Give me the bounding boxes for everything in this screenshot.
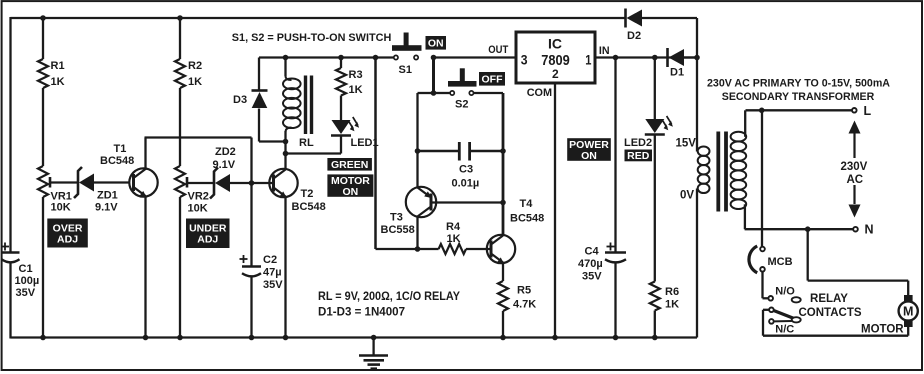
node C4 top: [613, 55, 619, 61]
capacitor C3: [418, 150, 459, 153]
svg-text:D3: D3: [233, 94, 247, 106]
svg-text:ADJ: ADJ: [197, 234, 218, 246]
op-amp IC1 7809 box: [516, 32, 595, 83]
svg-text:D1: D1: [670, 67, 684, 79]
node C4 ground: [613, 335, 619, 341]
node VR1 ground: [40, 335, 46, 341]
svg-text:ON: ON: [581, 150, 597, 162]
svg-text:0V: 0V: [680, 190, 694, 202]
wire C3 to T3: [416, 151, 418, 187]
switch S1: [394, 55, 398, 59]
svg-text:9.1V: 9.1V: [95, 202, 118, 214]
svg-text:N/C: N/C: [775, 324, 794, 336]
resistor R6: [650, 282, 660, 311]
svg-text:R6: R6: [665, 286, 679, 298]
node T3 base junction: [500, 200, 506, 206]
node L MCB junction: [759, 108, 765, 114]
svg-text:15V: 15V: [676, 138, 697, 150]
capacitor C1: [2, 251, 20, 254]
wire R1 branch: [42, 18, 44, 59]
motor M: [904, 295, 913, 302]
svg-text:0.01µ: 0.01µ: [452, 178, 480, 190]
svg-text:L: L: [864, 104, 872, 118]
svg-text:LED2: LED2: [624, 137, 652, 149]
label OFF: [479, 72, 505, 86]
arrow 230V AC: [849, 121, 861, 134]
node S1 rail junction: [373, 55, 379, 61]
svg-text:35V: 35V: [263, 279, 283, 291]
svg-text:BC548: BC548: [100, 155, 134, 167]
wire ZD1 to T1 base: [94, 181, 130, 183]
node R1 top: [40, 15, 46, 21]
node R5 ground: [500, 335, 506, 341]
wire 9V switched rail: [259, 56, 394, 58]
node R4 junction: [415, 246, 421, 252]
node C2 ground: [249, 335, 255, 341]
svg-text:47µ: 47µ: [263, 267, 282, 279]
node RL bottom D3 junction: [283, 139, 289, 145]
node LED1 junction: [283, 151, 289, 157]
svg-text:RL = 9V, 200Ω, 1C/O RELAY: RL = 9V, 200Ω, 1C/O RELAY: [318, 291, 460, 303]
svg-text:RL: RL: [299, 137, 314, 149]
wire LED1 to junction: [340, 136, 342, 154]
svg-text:2: 2: [552, 67, 559, 81]
svg-text:3: 3: [521, 52, 528, 68]
wire IN: [595, 56, 697, 58]
transistor T2: [269, 169, 297, 197]
svg-text:C4: C4: [585, 246, 600, 258]
wire C4 branch: [614, 58, 616, 253]
diode D1: [666, 48, 669, 67]
wire S1 rail to R4 node: [374, 58, 377, 250]
node LED2 top: [652, 55, 658, 61]
LED LED2: [645, 119, 664, 133]
svg-text:R4: R4: [446, 221, 461, 233]
wire VR1 wiper to ZD1: [50, 181, 78, 183]
svg-text:T4: T4: [520, 198, 534, 210]
svg-text:ZD1: ZD1: [97, 190, 118, 202]
svg-text:1K: 1K: [665, 299, 679, 311]
svg-text:R1: R1: [51, 60, 65, 72]
wire T1 emitter: [144, 196, 146, 338]
wire R5 to ground: [502, 311, 504, 338]
transistor T1: [129, 168, 157, 196]
svg-text:IC: IC: [548, 36, 562, 52]
contact N/C pole: [769, 308, 774, 313]
diode D3: [258, 58, 260, 91]
svg-text:CONTACTS: CONTACTS: [798, 307, 861, 319]
node VR2 ground: [177, 335, 183, 341]
node R6 ground: [652, 335, 658, 341]
svg-text:100µ: 100µ: [15, 275, 40, 287]
svg-text:9.1V: 9.1V: [213, 159, 236, 171]
wire T2 emitter: [284, 197, 286, 338]
wire T3 base: [432, 201, 504, 203]
transistor T3 BC558: [406, 187, 436, 217]
svg-text:D1-D3 = 1N4007: D1-D3 = 1N4007: [318, 306, 405, 318]
svg-text:R5: R5: [517, 285, 531, 297]
transformer primary: [731, 132, 747, 142]
wire N to motor: [807, 229, 809, 280]
svg-text:S2: S2: [455, 99, 468, 111]
wire S1 to S2 row: [432, 58, 435, 94]
wire T4 emitter to R5: [502, 264, 504, 282]
svg-text:230V: 230V: [841, 161, 868, 173]
svg-text:1K: 1K: [349, 84, 363, 96]
wire S2 branch to T4 collector: [502, 151, 505, 236]
wire N line: [744, 204, 746, 229]
svg-text:ADJ: ADJ: [57, 233, 78, 245]
node S1 out junction: [431, 55, 437, 61]
wire T3 collector down: [416, 217, 418, 250]
svg-text:MCB: MCB: [768, 256, 793, 268]
wire OUT: [434, 56, 517, 58]
node COM ground: [552, 335, 558, 341]
svg-text:BC548: BC548: [510, 213, 544, 225]
resistor R3: [340, 58, 342, 69]
contact N/O: [768, 296, 773, 301]
wire ZD2 to T2 base: [230, 182, 274, 184]
svg-text:MOTOR: MOTOR: [861, 324, 904, 336]
resistor R1: [38, 59, 48, 88]
ground symbol: [371, 335, 377, 341]
wire 0V line: [696, 189, 698, 338]
svg-text:RED: RED: [627, 150, 650, 162]
node C3 left: [415, 148, 421, 154]
node T2 emitter ground: [283, 335, 289, 341]
svg-text:C3: C3: [459, 164, 473, 176]
transformer secondary: [698, 146, 710, 155]
svg-text:R3: R3: [349, 69, 363, 81]
svg-text:470µ: 470µ: [578, 258, 603, 270]
resistor R4: [418, 248, 439, 250]
label OVER ADJ: [47, 219, 88, 248]
wire ground rail: [11, 336, 698, 338]
zener ZD2: [210, 168, 218, 199]
wire R6 to ground: [654, 311, 656, 338]
potentiometer VR2: [175, 166, 185, 197]
switch S2: [434, 92, 450, 94]
resistor R5: [498, 281, 508, 311]
node T1 emitter ground: [143, 335, 149, 341]
svg-text:10K: 10K: [51, 202, 71, 214]
svg-text:S1: S1: [399, 64, 412, 76]
terminal L: [852, 108, 857, 113]
svg-text:C1: C1: [19, 263, 33, 275]
svg-text:35V: 35V: [582, 271, 602, 283]
diode D2: [624, 9, 627, 28]
svg-text:R2: R2: [188, 60, 202, 72]
svg-text:N/O: N/O: [775, 286, 795, 298]
wire top rail right corner: [696, 18, 698, 58]
svg-text:35V: 35V: [16, 287, 36, 299]
wire LED2 branch: [654, 58, 656, 120]
wire MCB to NO: [761, 272, 763, 299]
wire RL junction down: [284, 142, 286, 154]
node R3 top: [338, 55, 344, 61]
terminal N: [853, 227, 858, 232]
label GREEN: [327, 158, 372, 171]
wire R2 branch: [179, 18, 181, 59]
svg-text:GREEN: GREEN: [331, 159, 368, 171]
svg-text:1K: 1K: [447, 233, 461, 245]
node R2 top: [177, 15, 183, 21]
wire COM pin2: [554, 83, 556, 338]
svg-text:C2: C2: [263, 254, 277, 266]
label ON: [426, 36, 447, 50]
svg-text:BC558: BC558: [381, 224, 415, 236]
wire S2 right down: [474, 92, 503, 94]
svg-text:D2: D2: [627, 30, 641, 42]
svg-text:M: M: [903, 305, 913, 319]
svg-text:1: 1: [585, 52, 591, 68]
wire pole to motor return: [763, 309, 769, 311]
svg-text:10K: 10K: [188, 203, 208, 215]
svg-text:ON: ON: [343, 186, 359, 198]
svg-text:1K: 1K: [188, 76, 202, 88]
svg-text:VR2: VR2: [188, 191, 209, 203]
svg-text:COM: COM: [527, 87, 552, 99]
svg-text:RELAY: RELAY: [810, 293, 848, 305]
svg-text:IN: IN: [599, 45, 610, 57]
node C3 right: [500, 148, 506, 154]
relay coil RL: [284, 58, 286, 77]
svg-text:N: N: [865, 223, 874, 237]
label UNDER ADJ: [186, 219, 230, 249]
node S2 row junction: [431, 90, 437, 96]
svg-text:4.7K: 4.7K: [513, 299, 536, 311]
breaker MCB: [760, 247, 765, 252]
svg-text:OFF: OFF: [482, 74, 504, 86]
node D1 junction: [694, 55, 700, 61]
wire T1 collector down to C2: [250, 138, 252, 267]
svg-text:230V AC PRIMARY TO 0-15V, 500m: 230V AC PRIMARY TO 0-15V, 500mA: [707, 78, 890, 90]
wire 15V line: [696, 58, 698, 152]
svg-text:T3: T3: [390, 212, 403, 224]
svg-text:AC: AC: [847, 174, 864, 186]
label MOTOR ON: [327, 174, 373, 196]
wire T1 collector: [144, 138, 146, 171]
wire L line: [744, 110, 746, 137]
svg-text:1K: 1K: [51, 76, 65, 88]
potentiometer VR1: [38, 166, 48, 197]
svg-text:T2: T2: [301, 188, 314, 200]
transformer core: [716, 132, 720, 212]
wire left branch: [9, 17, 11, 253]
wire L to MCB: [761, 110, 763, 246]
wire D1 anode: [684, 56, 697, 58]
resistor R2: [175, 59, 185, 88]
wire top supply rail: [11, 17, 626, 19]
node ZD2 T1-collector junction: [249, 180, 255, 186]
svg-text:ON: ON: [428, 38, 444, 50]
svg-text:ZD2: ZD2: [215, 146, 236, 158]
svg-text:SECONDARY TRANSFORMER: SECONDARY TRANSFORMER: [722, 91, 875, 103]
label RED: [625, 150, 653, 162]
svg-text:T1: T1: [114, 143, 127, 155]
label POWER ON: [567, 138, 611, 161]
svg-text:BC548: BC548: [292, 201, 326, 213]
wire C2 to ground: [250, 276, 252, 338]
zener ZD1: [74, 167, 82, 198]
capacitor C4: [605, 251, 626, 254]
svg-text:OUT: OUT: [488, 44, 508, 56]
capacitor C2: [242, 265, 261, 268]
wire VR2 wiper to ZD2: [187, 182, 214, 184]
wire T2 collector: [284, 154, 286, 170]
wire R3 to LED1: [340, 96, 342, 121]
node RL top: [283, 55, 289, 61]
svg-text:S1, S2 = PUSH-TO-ON SWITCH: S1, S2 = PUSH-TO-ON SWITCH: [232, 32, 392, 44]
node N motor junction: [805, 226, 811, 232]
LED LED1: [332, 120, 351, 134]
wire S2 row left branch: [418, 92, 434, 94]
transistor T4: [487, 235, 515, 263]
